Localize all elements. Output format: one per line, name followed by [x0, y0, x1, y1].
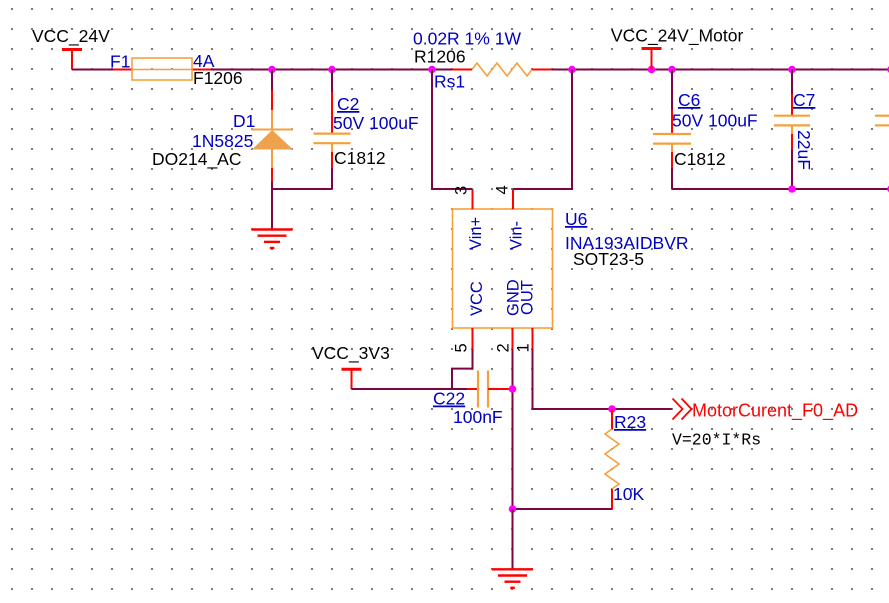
svg-text:VCC_24V: VCC_24V — [32, 26, 110, 47]
wire D1 ground stem — [271, 189, 273, 229]
svg-text:V=20*I*Rs: V=20*I*Rs — [672, 431, 761, 450]
wire VCC_3V3 to C22 — [352, 388, 468, 390]
resistor Rs1 — [452, 63, 552, 76]
resistor R23 — [605, 409, 619, 509]
power port VCC_3V3 — [312, 343, 390, 389]
wire Vin- branch — [513, 70, 572, 190]
wire gnd stem — [512, 509, 514, 569]
svg-text:R1206: R1206 — [414, 47, 466, 67]
svg-text:C2: C2 — [337, 94, 359, 114]
wire Vin+ branch — [432, 70, 472, 190]
svg-text:C1812: C1812 — [334, 148, 386, 168]
svg-text:3: 3 — [453, 186, 471, 195]
svg-text:DO214_AC: DO214_AC — [152, 149, 242, 170]
node junction C7 branch — [788, 66, 796, 74]
node junction D1 branch — [268, 66, 276, 74]
node junction C2 branch — [328, 66, 336, 74]
wire pin5 elbow — [452, 349, 473, 389]
ground main — [492, 569, 533, 588]
node junction Rs1 right — [568, 66, 576, 74]
svg-text:1N5825: 1N5825 — [192, 131, 253, 151]
svg-text:VCC_3V3: VCC_3V3 — [312, 343, 390, 364]
svg-text:5: 5 — [453, 343, 471, 352]
svg-text:Vin-: Vin- — [508, 221, 526, 250]
wire top rail fuse to Rs1 — [211, 69, 452, 71]
wire top rail left — [72, 69, 113, 71]
pin 2 — [512, 328, 514, 349]
diode D1 — [252, 70, 294, 183]
pin 3 — [472, 189, 474, 209]
node junction R23 bottom — [509, 505, 517, 513]
capacitor C7 — [774, 70, 810, 190]
node junction C6 branch — [668, 66, 676, 74]
fuse F1 — [113, 58, 211, 80]
wire OUT net — [533, 349, 672, 409]
svg-text:10K: 10K — [613, 484, 644, 504]
node junction R23 top — [608, 405, 616, 413]
wire GND net vertical — [512, 349, 514, 509]
svg-text:U6: U6 — [565, 209, 587, 229]
svg-text:R23: R23 — [614, 412, 646, 432]
power port VCC_24V_Motor — [611, 26, 743, 70]
svg-text:50V 100uF: 50V 100uF — [333, 113, 419, 133]
port MotorCurent_F0_AD — [673, 399, 859, 422]
svg-text:1: 1 — [515, 343, 533, 352]
op-amp U6 — [453, 189, 553, 349]
svg-text:22uF: 22uF — [794, 130, 814, 170]
wire bottom rail C6-C7-edge — [672, 188, 889, 190]
svg-text:100nF: 100nF — [453, 407, 503, 427]
power port VCC_24V — [32, 26, 110, 70]
ground at D1 — [252, 230, 293, 249]
node junction C22 out — [509, 385, 517, 393]
svg-text:VCC: VCC — [468, 281, 486, 316]
node junction C7 bottom — [788, 185, 796, 193]
wire R23 bottom — [513, 508, 613, 510]
pin 5 — [472, 328, 474, 349]
svg-text:SOT23-5: SOT23-5 — [573, 249, 644, 269]
pin 4 — [512, 189, 514, 209]
svg-text:VCC_24V_Motor: VCC_24V_Motor — [611, 26, 743, 47]
svg-text:C22: C22 — [433, 389, 465, 409]
svg-text:D1: D1 — [233, 111, 255, 131]
svg-text:F1: F1 — [110, 52, 130, 72]
svg-text:MotorCurent_F0_AD: MotorCurent_F0_AD — [692, 401, 858, 422]
capacitor C2 — [314, 70, 351, 190]
pin 1 — [532, 328, 534, 349]
capacitor C6 — [653, 70, 691, 190]
svg-text:C1812: C1812 — [674, 149, 726, 169]
svg-text:50V 100uF: 50V 100uF — [672, 111, 758, 131]
capacitor C8 partial right edge — [875, 116, 889, 126]
svg-text:C7: C7 — [793, 90, 815, 110]
capacitor C22 — [467, 371, 513, 408]
svg-text:F1206: F1206 — [193, 68, 243, 88]
svg-text:Rs1: Rs1 — [434, 72, 465, 92]
wire top rail Rs1 to right edge — [552, 69, 889, 71]
svg-text:4: 4 — [494, 185, 512, 194]
node junction right edge bottom — [887, 185, 889, 193]
wire D1 bottom node — [272, 182, 332, 189]
svg-text:Vin+: Vin+ — [467, 217, 485, 250]
node junction VCC_24V_Motor — [648, 66, 656, 74]
svg-text:C6: C6 — [678, 90, 700, 110]
svg-text:2: 2 — [495, 343, 513, 352]
node junction right edge top — [887, 66, 889, 74]
svg-text:OUT: OUT — [519, 280, 537, 315]
node junction Rs1 left — [428, 66, 436, 74]
